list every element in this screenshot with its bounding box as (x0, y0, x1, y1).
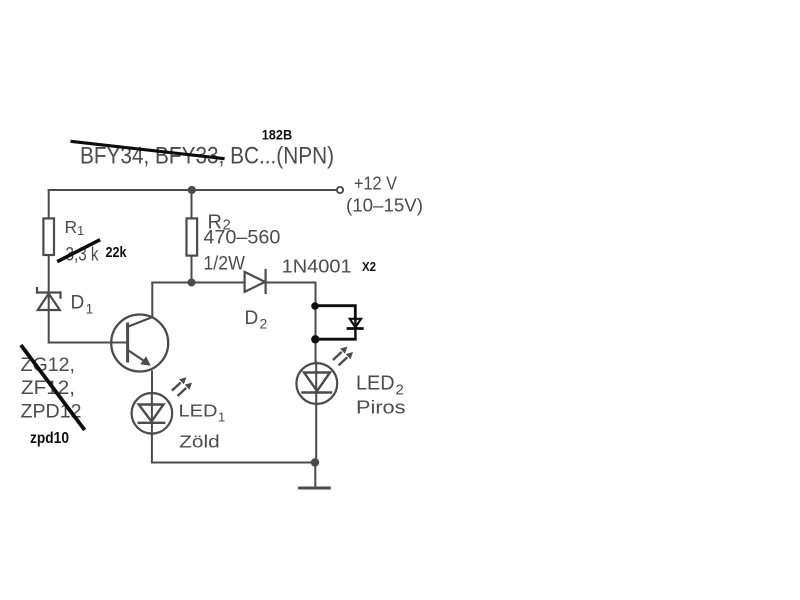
annotation diode bar (348, 327, 362, 330)
wire D1 to transistor base (49, 342, 127, 344)
LED1 wire through (151, 393, 153, 435)
transistor Q1 base bar (126, 324, 129, 361)
annotation strikethrough over 3,3k (59, 241, 99, 261)
wire emitter to LED1 (151, 372, 153, 393)
LED1 circle (132, 393, 173, 434)
svg-text:R: R (65, 217, 78, 237)
LED1 bar (139, 422, 165, 424)
resistor R1 (43, 218, 54, 255)
node top junction (188, 186, 196, 194)
node collector junction (188, 279, 196, 287)
ground stem (314, 463, 316, 488)
wire collector rail to node (152, 282, 191, 284)
svg-text:Piros: Piros (356, 398, 406, 418)
wire D1 through symbol (48, 293, 50, 343)
wire R2 top lead (191, 190, 193, 218)
annotation parallel diode black: top segment (315, 306, 355, 319)
LED2 bar (303, 391, 332, 393)
svg-text:X2: X2 (362, 260, 376, 274)
diode D2 (245, 270, 266, 293)
svg-text:LED: LED (179, 401, 218, 421)
LED1 triangle (139, 405, 164, 422)
transistor Q1 collector stroke (129, 317, 153, 327)
svg-text:1N4001: 1N4001 (282, 257, 352, 277)
annotation bottom segment (315, 338, 355, 341)
svg-text:zpd10: zpd10 (30, 430, 69, 447)
annotation diode triangle (350, 319, 361, 328)
wire R2 bottom lead (191, 257, 193, 283)
wire D2 to LED2 branch (266, 283, 316, 363)
annotation strikethrough over zener types (22, 347, 84, 429)
LED1 light arrows (173, 377, 192, 395)
svg-text:1: 1 (86, 301, 94, 317)
wire node to D2 (192, 282, 245, 284)
LED2 light arrows (334, 347, 353, 365)
annotation diode stem (354, 319, 356, 339)
LED2 wire through (315, 362, 317, 405)
svg-text:1: 1 (218, 410, 225, 425)
svg-text:2: 2 (396, 382, 404, 399)
wire LED1 bottom to rail (152, 435, 315, 463)
LED2 circle (296, 363, 337, 404)
svg-text:1/2W: 1/2W (203, 254, 245, 275)
transistor Q1 emitter stroke with arrow (129, 351, 147, 363)
LED2 triangle (304, 373, 330, 392)
svg-text:D: D (71, 293, 85, 314)
svg-text:+12 V: +12 V (354, 173, 398, 194)
svg-text:470–560: 470–560 (203, 228, 280, 249)
ground bar (300, 487, 330, 490)
svg-text:LED: LED (356, 373, 395, 395)
svg-text:22k: 22k (106, 244, 128, 261)
wire LED2 bottom to rail (315, 405, 317, 463)
terminal +12V (337, 187, 343, 193)
svg-text:D: D (245, 308, 259, 329)
wire R1 to D1 (48, 256, 50, 292)
zener diode D1 (37, 288, 61, 310)
node ground junction (311, 458, 319, 466)
svg-text:(10–15V): (10–15V) (346, 195, 423, 216)
svg-text:Zöld: Zöld (179, 432, 220, 452)
wire top rail (49, 189, 336, 191)
wire R1 top lead (48, 190, 50, 218)
annotation junction dot bottom (311, 335, 319, 343)
resistor R2 (187, 218, 198, 255)
svg-text:182B: 182B (262, 127, 293, 143)
annotation strikethrough over title (72, 142, 223, 159)
svg-text:1: 1 (77, 223, 84, 238)
wire collector up (151, 283, 153, 318)
annotation junction dot top (311, 302, 319, 310)
transistor Q1 circle (111, 315, 168, 372)
svg-text:2: 2 (260, 316, 268, 332)
